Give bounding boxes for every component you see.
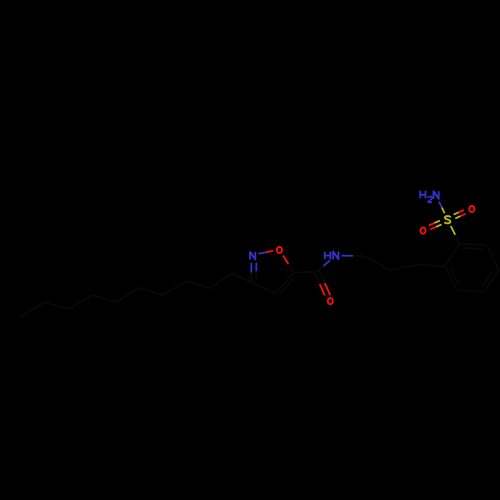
wire: isoxazole N-O bond xyxy=(259,252,266,254)
node H2N: sulfonamide NH2 xyxy=(420,191,425,199)
node HN: amide nitrogen xyxy=(325,252,331,260)
node O: sulfonyl oxygen right xyxy=(469,206,474,212)
node N: isoxazole ring nitrogen xyxy=(250,252,255,260)
wire: HN-CH2 bond xyxy=(342,255,354,257)
wire: isoxazole C3-C4 bond xyxy=(253,283,276,294)
wire: S=O left double bond xyxy=(434,221,440,224)
wire: isoxazole C4=C5 double bond xyxy=(276,273,294,294)
node O: sulfonyl oxygen left xyxy=(420,228,425,234)
wire: CH2-CH2 bond 2 xyxy=(390,265,418,270)
wire: S=O right double bond xyxy=(455,216,460,218)
wire: isoxazole N=C3 double bond xyxy=(250,263,252,273)
node O: isoxazole ring oxygen xyxy=(277,247,282,253)
wire: amide C-N bond xyxy=(317,266,324,272)
wire: isoxazole O-C5 bond xyxy=(283,256,288,265)
node S: sulfonyl sulfur xyxy=(445,216,451,223)
wire: amide C=O double bond xyxy=(315,273,320,284)
wire: C5-C(=O) bond xyxy=(294,271,317,274)
wire: S-phenyl bond xyxy=(451,226,456,235)
wire: benzene ring xyxy=(445,266,457,290)
node O: amide carbonyl oxygen xyxy=(328,298,333,304)
wire: decyl chain from C3 xyxy=(232,274,253,283)
wire: CH2-phenyl bond xyxy=(418,265,445,267)
wire: S-NH2 bond xyxy=(442,207,445,213)
wire: benzene inner aromatic lines xyxy=(450,268,459,286)
wire: CH2-CH2 bond xyxy=(365,256,390,270)
